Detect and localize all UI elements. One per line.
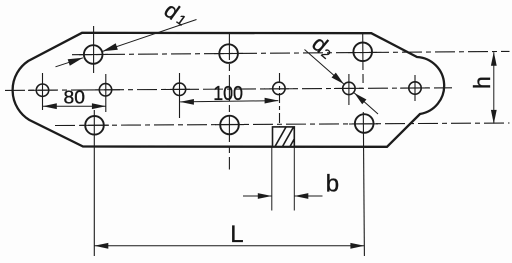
svg-text:100: 100 <box>213 83 243 105</box>
svg-text:h: h <box>469 76 495 89</box>
svg-text:b: b <box>326 170 339 197</box>
svg-text:L: L <box>230 221 243 248</box>
svg-text:80: 80 <box>64 86 85 107</box>
svg-text:d2: d2 <box>307 31 339 63</box>
